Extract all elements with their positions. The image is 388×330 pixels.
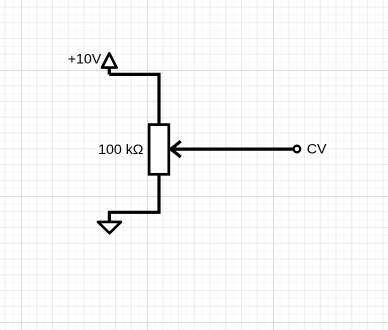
power +10V symbol (up triangle) [102, 53, 117, 67]
svg-text:+10V: +10V [68, 52, 102, 68]
potentiometer wiper wire [172, 148, 293, 151]
terminal CV circle [294, 146, 301, 153]
svg-text:100 kΩ: 100 kΩ [98, 142, 143, 158]
wire power to potentiometer top [109, 74, 159, 124]
svg-text:CV: CV [307, 141, 327, 157]
ground symbol (down triangle) [98, 222, 121, 233]
potentiometer body (resistor rectangle) [149, 125, 169, 175]
wire power stub [108, 68, 111, 75]
wire potentiometer bottom to ground [109, 174, 159, 222]
wiper arrowhead [171, 141, 181, 157]
